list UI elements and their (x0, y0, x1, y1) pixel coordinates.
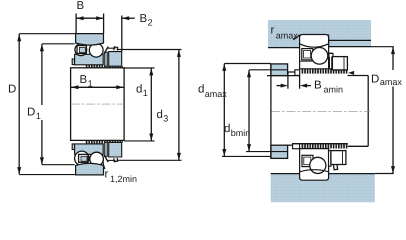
lock washer mounted lower (329, 151, 331, 167)
dim B line (76, 17, 104, 19)
label D1 (26, 105, 46, 120)
shaft end edge (367, 76, 369, 147)
locknut mounted upper (332, 57, 347, 70)
housing bottom edge left (268, 47, 300, 49)
svg-text:D: D (371, 74, 379, 86)
r fillet leader (103, 161, 105, 170)
sleeve lip upper (72, 59, 74, 65)
cage pocket upper (77, 46, 86, 54)
svg-text:d: d (136, 84, 142, 96)
svg-text:amax: amax (276, 31, 299, 41)
ball upper right (89, 43, 103, 57)
svg-text:1: 1 (36, 111, 41, 121)
svg-text:B: B (77, 0, 85, 12)
ball lower left (75, 151, 89, 165)
shaft/sleeve white block (71, 68, 125, 141)
dim B arrows (76, 16, 83, 20)
dim B1 line (71, 86, 124, 88)
locknut upper (109, 52, 122, 67)
housing bottom section (271, 174, 375, 203)
shaft surface upper line (267, 75, 300, 77)
dim D1 line (41, 44, 43, 165)
dim D_amax arrows (391, 47, 395, 54)
ball lower right (90, 152, 104, 166)
ball upper left (75, 44, 87, 56)
dim d3 extension top (117, 49, 182, 51)
dim D1 extension top (42, 43, 75, 45)
dim D extension top (19, 33, 75, 35)
svg-text:amax: amax (380, 77, 403, 87)
lock washer tab lower (104, 155, 108, 162)
housing bore line right (329, 39, 371, 41)
dim D1 arrows (40, 44, 44, 51)
mounted bearing lower (300, 149, 329, 181)
dim D_amax ext top (371, 46, 394, 48)
thread teeth upper (86, 65, 105, 68)
dim D arrows (17, 34, 21, 41)
svg-text:3: 3 (163, 114, 168, 124)
thread teeth lower (86, 141, 105, 144)
dim d_bmin ext bottom (246, 151, 288, 153)
svg-text:d: d (157, 109, 163, 121)
dim d_bmin ext top (249, 69, 288, 71)
shaft broken end edge (270, 64, 272, 158)
sleeve step upper (288, 72, 295, 76)
housing bottom bore edges (271, 173, 300, 175)
svg-text:d: d (224, 123, 230, 135)
dim B2 arrow (122, 16, 129, 20)
sleeve small end upper (295, 70, 300, 76)
shaft end small arrow (348, 71, 354, 75)
dim B1 arrows (71, 85, 78, 89)
washer tab mounted lower (333, 164, 337, 169)
mounted thread teeth lower (301, 144, 348, 149)
dim d3 arrows (177, 50, 181, 57)
svg-text:amax: amax (205, 89, 228, 99)
outer ring lower (76, 163, 104, 175)
inner ring + sleeve lower (75, 144, 104, 154)
dim d_bmin line (248, 70, 250, 151)
dim B extension lines (75, 14, 77, 34)
inner ring + sleeve upper (75, 54, 104, 65)
raceway arc lower (300, 170, 329, 172)
dim D1 extension bottom (42, 164, 75, 166)
sleeve lip lower (72, 144, 74, 150)
cage pocket mounted upper (302, 49, 313, 60)
mounted thread teeth upper (301, 69, 348, 74)
dim D_amax line (392, 47, 394, 70)
svg-text:D: D (8, 84, 16, 96)
svg-text:r: r (271, 25, 275, 37)
svg-text:bmin: bmin (231, 128, 251, 138)
housing top section (268, 20, 371, 48)
locknut mounted lower (331, 151, 346, 165)
ball mounted upper (311, 48, 328, 65)
shaft abutment spacer lower (271, 145, 288, 158)
dim d_amax ext bottom (222, 155, 271, 157)
dim d_bmin arrows (247, 70, 251, 77)
svg-text:B: B (314, 80, 322, 92)
lower sleeve top line (293, 143, 348, 145)
mounted bearing upper (300, 35, 329, 69)
cage pocket lower (79, 154, 88, 162)
inner ring line upper (300, 60, 313, 62)
dim d3 line (178, 50, 180, 160)
svg-text:1: 1 (143, 88, 148, 98)
svg-text:B: B (80, 74, 88, 86)
dim d_amax arrows (222, 64, 226, 71)
svg-text:B: B (140, 13, 148, 25)
dim d_amax line (223, 64, 225, 157)
lock washer section lower (105, 142, 108, 156)
lock washer section upper (105, 52, 108, 66)
svg-text:amin: amin (324, 84, 344, 94)
raceway arc upper (300, 44, 329, 47)
dim d1 arrows (149, 68, 153, 75)
outer ring upper (76, 34, 104, 46)
dim B_amin ref lines (287, 76, 289, 89)
r_amax leader (293, 35, 300, 40)
shaft surface lower line (288, 144, 300, 146)
dim D line (18, 34, 20, 175)
lock washer mounted upper (329, 53, 331, 69)
dim d1 extension bottom (124, 140, 154, 142)
dim d1 line (150, 68, 152, 141)
dim B_amin arrows (277, 85, 284, 87)
dim D extension bottom (19, 174, 75, 176)
locknut lower (109, 142, 122, 157)
svg-text:2: 2 (148, 18, 153, 28)
housing shoulder bottom right (329, 46, 371, 48)
sleeve small end lower (293, 144, 300, 149)
svg-text:1,2min: 1,2min (110, 174, 137, 184)
shaft abutment spacer upper (271, 64, 288, 76)
centerline right (271, 111, 370, 113)
lock washer tab upper (104, 47, 108, 54)
svg-text:1: 1 (88, 79, 93, 89)
dim d_amax ext top (224, 63, 271, 65)
dim d3 extension bottom (117, 159, 182, 161)
dim D_amax ext bottom (375, 173, 394, 175)
svg-text:D: D (27, 107, 35, 119)
dim B2 extension line (121, 16, 123, 52)
ball mounted lower (310, 157, 326, 173)
dim d1 extension top (124, 67, 154, 69)
svg-text:r: r (105, 169, 109, 181)
svg-text:d: d (198, 84, 204, 96)
centerline left (71, 103, 125, 105)
cage pocket mounted lower (302, 155, 313, 166)
